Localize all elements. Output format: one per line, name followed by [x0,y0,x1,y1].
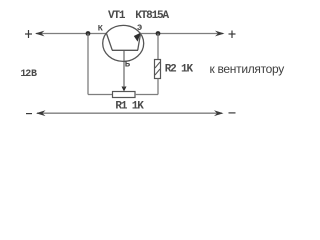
svg-text:В: В [31,69,37,80]
wire emitter output rail [141,33,224,35]
svg-text:VT1 КТ815А: VT1 КТ815А [108,10,170,22]
arrowhead left end of positive rail [35,31,45,37]
potentiometer R1 wiper arrow [122,87,127,92]
wire from R2 bottom down [157,79,159,95]
wire top-left positive rail [36,33,107,35]
potentiometer R1 body [113,92,136,98]
label - (right negative polarity) [229,112,236,114]
transistor VT1 emitter arrowhead [134,33,141,42]
transistor VT1 base bar [112,49,138,51]
label + (output polarity) [229,31,236,39]
arrowhead right end of negative rail [214,110,224,116]
wire from emitter junction down to R2 top [157,34,159,60]
transistor VT1 circle [103,25,144,61]
svg-text:Э: Э [137,23,142,33]
svg-text:12: 12 [20,69,31,80]
svg-text:к вентилятору: к вентилятору [210,62,285,76]
wire base lead from transistor to R1 wiper [123,50,125,87]
label + (left supply polarity) [25,30,32,38]
svg-text:К: К [98,24,104,34]
resistor R2 body [155,60,161,79]
svg-text:R1 1K: R1 1K [115,100,144,112]
svg-text:R2 1K: R2 1K [165,63,194,75]
node junction dot at positive rail / R1 branch [86,31,91,36]
node junction dot emitter rail / R2 branch [156,31,161,36]
wire vertical from junction down to R1 left [87,34,89,95]
transistor VT1 collector line [107,34,113,51]
transistor VT1 emitter line [138,34,141,51]
wire horizontal to R1 left terminal [88,94,113,96]
arrowhead right end of emitter rail [215,31,225,37]
wire bottom negative rail [37,112,222,114]
arrowhead left end of negative rail [36,110,46,116]
wire from R1 right terminal to R2 branch [135,94,158,96]
label - (left negative polarity) [26,113,32,115]
resistor R2 hatch marks [155,62,160,75]
